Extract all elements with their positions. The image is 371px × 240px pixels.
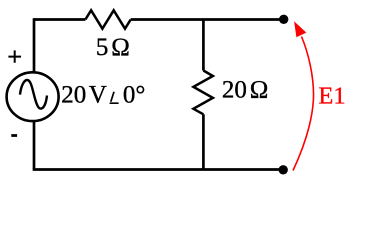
minus sign <box>11 134 17 137</box>
svg-text:5: 5 <box>96 34 109 61</box>
svg-text:0°: 0° <box>123 82 145 109</box>
label: source value 20 V <box>61 82 107 109</box>
wire: top horizontal left segment <box>34 18 85 21</box>
resistor R2 zigzag (20 ohm) <box>193 71 213 115</box>
wire: bottom horizontal <box>33 168 284 171</box>
svg-text:V: V <box>89 82 107 109</box>
wire: middle branch lower lead <box>202 114 205 169</box>
wire: top horizontal right segment <box>131 18 284 21</box>
label: 5 ohm value <box>96 34 130 61</box>
resistor R1 zigzag (5 ohm) <box>85 10 130 28</box>
label: 20 ohm value <box>222 77 268 104</box>
source V1 circle (AC) <box>7 72 59 121</box>
svg-text:Ω: Ω <box>111 34 130 61</box>
plus sign <box>8 50 21 62</box>
node: top terminal dot <box>279 15 288 24</box>
E1 arrowhead <box>294 21 306 37</box>
svg-text:20: 20 <box>61 82 86 109</box>
node: bottom terminal dot <box>279 165 288 174</box>
wire: middle branch upper lead <box>202 20 205 71</box>
wire: left vertical lower (source - lead) <box>33 120 36 169</box>
svg-text:20: 20 <box>222 77 247 104</box>
svg-text:Ω: Ω <box>250 77 269 104</box>
E1 arc arrow body <box>293 37 314 171</box>
wire: left vertical upper (source + lead) <box>33 18 36 73</box>
phasor angle symbol <box>110 92 119 103</box>
svg-text:E1: E1 <box>318 83 345 110</box>
source V1 sine wave <box>20 80 47 109</box>
